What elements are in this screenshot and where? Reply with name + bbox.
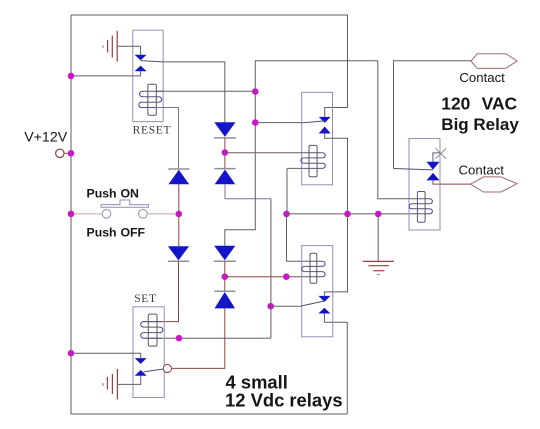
pushbutton SW1: [101, 200, 149, 218]
wire coil bus: [287, 213, 413, 215]
contact NC of K1: [426, 162, 439, 170]
node SET coil bottom: [176, 335, 183, 342]
wire RESET arm run to K1 coil top: [378, 61, 412, 199]
wire V+12V terminal to rail: [64, 152, 71, 154]
diode D3: [214, 122, 235, 137]
contact NO of U3: [318, 308, 330, 314]
wire D6 down to SET arm circle: [172, 308, 225, 368]
wire RESET arm run: [163, 62, 225, 122]
wire U2 NO to bus: [325, 134, 348, 214]
coil of U2: [301, 145, 326, 176]
node D2b on coil feed: [283, 273, 290, 280]
wire D5 to node D: [224, 261, 226, 291]
wire node A up and over to big relay coil: [255, 61, 377, 92]
wire pushbutton to node B: [147, 213, 179, 215]
wire arm node to U3: [271, 305, 302, 307]
contact NC of U2: [319, 117, 331, 123]
ground (RESET contact): [103, 31, 117, 62]
contact NC of RESET: [135, 55, 147, 61]
wire D4 drop to SET coil bottom: [144, 199, 271, 338]
wire D3 to node C: [224, 138, 226, 169]
wire SET NO to ground: [117, 376, 140, 385]
node bus 2: [344, 211, 351, 218]
wire node A jog to D5: [225, 92, 256, 246]
relay K1 big relay box: [409, 139, 440, 231]
wire node C to U2 coil top: [225, 152, 304, 154]
ground (K1 coil): [363, 261, 394, 274]
relay U2 box: [302, 92, 333, 185]
node C on diode column: [222, 149, 229, 156]
diode D4: [214, 168, 235, 170]
switch arm of U2: [302, 121, 325, 123]
wire U2 coil bottom to bus node: [287, 168, 304, 214]
node +12V / RESET NO: [68, 73, 75, 80]
node A2: [252, 119, 259, 126]
wire node B down to D2: [178, 214, 180, 246]
svg-text:Contact: Contact: [459, 163, 505, 178]
wire K1 NC corner: [433, 153, 440, 162]
diode D2: [168, 246, 189, 260]
wire RESET coil top run: [156, 90, 255, 92]
node pushbutton right: [176, 211, 183, 218]
wire bus node2 to U3 NC: [324, 214, 347, 296]
svg-text:Push ON: Push ON: [87, 187, 140, 201]
wire node A2 to relay U2 arm: [255, 122, 301, 124]
wire bus node3 to ground: [377, 214, 379, 261]
switch arm of SET: [144, 369, 164, 372]
switch arm of U3: [302, 301, 325, 306]
svg-text:12 Vdc relays: 12 Vdc relays: [225, 390, 343, 411]
node D: [222, 273, 229, 280]
node bus 3: [375, 211, 382, 218]
wire ground to RESET NC: [117, 46, 140, 55]
relay U3 box: [302, 246, 333, 337]
contact NO of RESET: [135, 66, 147, 72]
ground (SET contact): [103, 369, 118, 400]
relay U4 SET box: [133, 307, 164, 398]
wire node D to relay U3 coil: [225, 276, 305, 278]
wire D4 to vertical drop: [225, 184, 271, 199]
switch arm of RESET: [141, 61, 164, 62]
svg-text:Big Relay: Big Relay: [441, 115, 519, 134]
coil of K1: [409, 192, 432, 223]
node bus 1: [283, 211, 290, 218]
wire bottom rail: [71, 413, 348, 415]
wire K1 arm to Contact 1: [394, 61, 472, 169]
node A: [252, 88, 259, 95]
coil of SET: [141, 314, 163, 346]
contact NO of U2: [319, 127, 331, 134]
svg-text:120 VAC: 120 VAC: [441, 94, 517, 114]
svg-text:Contact: Contact: [459, 70, 505, 85]
wire bottom-rail riser to relay U3 NO: [324, 314, 347, 415]
svg-text:RESET: RESET: [133, 124, 172, 136]
node V+12V: [68, 150, 75, 157]
coil of RESET: [139, 84, 163, 115]
arm terminal circle of SET: [163, 364, 171, 372]
contact NC of U3: [318, 296, 330, 302]
terminal Contact 2: [471, 177, 517, 192]
wire top-rail drop to relay U2 NC: [325, 15, 348, 117]
wire D2 to SET coil top: [144, 261, 179, 321]
wire bus to U3 coil top: [287, 214, 305, 261]
node rail SET: [68, 350, 75, 357]
X mark on K1 NC: [436, 148, 447, 159]
svg-text:SET: SET: [134, 293, 157, 305]
wire RESET coil bottom to diode column: [156, 108, 178, 170]
diode D6: [214, 290, 235, 292]
coil of U3: [302, 253, 325, 283]
contact NO of SET: [135, 370, 147, 376]
wire K1 NO to Contact 2: [433, 180, 471, 184]
switch arm of K1: [394, 169, 434, 170]
wire left +12V rail: [70, 15, 72, 414]
wire rail to SET NC: [71, 353, 141, 358]
contact NO of K1: [426, 173, 439, 181]
wire +12V top rail: [71, 14, 348, 16]
terminal Contact 1: [471, 54, 517, 69]
diode D1: [168, 168, 189, 170]
wire RESET NO to +12V rail: [71, 71, 141, 76]
svg-text:Push OFF: Push OFF: [87, 226, 146, 240]
relay U1 RESET box: [133, 30, 163, 121]
wire D1 to pushbutton node: [178, 184, 180, 214]
svg-text:V+12V: V+12V: [24, 130, 68, 146]
contact NC of SET: [135, 358, 147, 364]
terminal V+12V: [56, 149, 64, 157]
diode D5: [214, 246, 235, 260]
node arm U3: [267, 303, 274, 310]
wire rail to pushbutton: [71, 213, 102, 215]
node pushbutton left: [68, 211, 75, 218]
